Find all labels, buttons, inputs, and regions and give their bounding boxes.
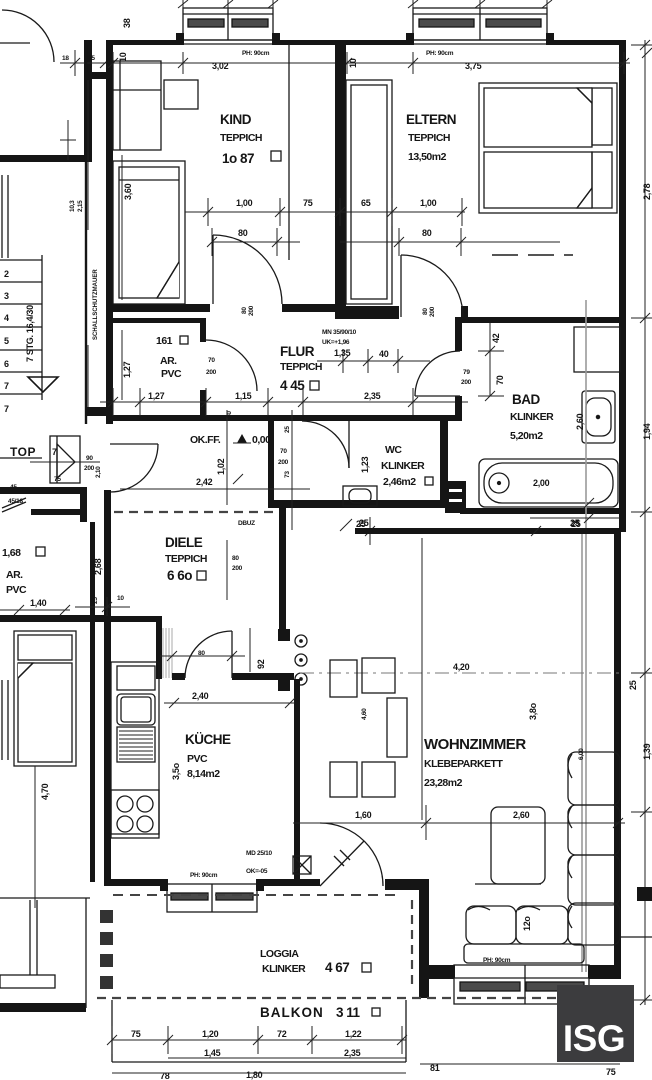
kitchen counter sink unit bbox=[111, 662, 159, 834]
svg-text:2,46m2: 2,46m2 bbox=[383, 476, 416, 488]
neighbor top-left door arc bbox=[2, 10, 54, 62]
svg-text:3,8o: 3,8o bbox=[528, 702, 538, 720]
neighbor bottom-left room bbox=[90, 622, 95, 882]
kitchen right wall bbox=[294, 679, 300, 886]
side table bbox=[475, 807, 545, 884]
svg-text:90: 90 bbox=[86, 455, 93, 462]
svg-text:UK=+1,96: UK=+1,96 bbox=[322, 339, 350, 346]
svg-text:75: 75 bbox=[303, 198, 313, 208]
TOP door dim line bbox=[30, 461, 100, 463]
KIND bed bbox=[113, 161, 185, 304]
ELTERN wardrobe bbox=[346, 80, 392, 304]
DIELE vertical dim x292 bbox=[291, 410, 293, 530]
KIND top window bbox=[183, 8, 273, 44]
svg-text:200: 200 bbox=[429, 306, 436, 317]
svg-text:4,70: 4,70 bbox=[40, 783, 50, 800]
neighbor top-left dim ticks bbox=[60, 50, 110, 76]
svg-text:1,40: 1,40 bbox=[30, 598, 47, 608]
svg-text:65: 65 bbox=[361, 198, 371, 208]
svg-text:80: 80 bbox=[241, 307, 248, 314]
svg-text:OK.FF.: OK.FF. bbox=[190, 434, 221, 446]
main dim chain y=402 bbox=[100, 388, 468, 416]
svg-text:1,02: 1,02 bbox=[216, 458, 226, 475]
kitchen window to loggia bbox=[167, 884, 257, 912]
svg-text:1,35: 1,35 bbox=[334, 348, 351, 358]
svg-text:10: 10 bbox=[117, 595, 124, 602]
svg-text:7 STG. 16,4/30: 7 STG. 16,4/30 bbox=[25, 305, 35, 362]
svg-text:2,40: 2,40 bbox=[192, 691, 209, 701]
top exterior wall segments bbox=[106, 40, 183, 45]
staircase steps left side bbox=[0, 255, 42, 458]
loggia left dashed boundary bbox=[100, 910, 113, 989]
svg-text:1,00: 1,00 bbox=[236, 198, 253, 208]
svg-text:PH: 90cm: PH: 90cm bbox=[242, 50, 270, 57]
svg-text:200: 200 bbox=[232, 565, 243, 572]
svg-text:25: 25 bbox=[628, 680, 638, 690]
BAD shower/washer box top right bbox=[574, 327, 620, 372]
svg-text:SCHALLSCHUTZMAUER: SCHALLSCHUTZMAUER bbox=[93, 269, 99, 340]
loggia top dashed beam bbox=[113, 894, 400, 896]
stair direction arrow bbox=[28, 377, 58, 392]
svg-text:2,60: 2,60 bbox=[575, 413, 585, 430]
KIND wardrobe top-left bbox=[113, 61, 161, 150]
svg-text:1,00: 1,00 bbox=[420, 198, 437, 208]
lower-left walls bbox=[0, 487, 86, 494]
right neighbor balcony wall piece bbox=[637, 887, 652, 901]
BAD bottom wall bbox=[460, 508, 626, 514]
svg-text:1,22: 1,22 bbox=[345, 1029, 362, 1039]
sofa L-shape bbox=[464, 752, 620, 963]
BAD top wall bbox=[460, 317, 626, 323]
svg-text:80: 80 bbox=[238, 228, 248, 238]
ELTERN right dashed sill bbox=[492, 254, 573, 256]
WC door leaf+arc bbox=[302, 421, 349, 468]
staircase step numbers bbox=[4, 269, 9, 414]
shaft between WC and BAD bbox=[445, 481, 466, 513]
svg-text:7: 7 bbox=[52, 447, 57, 457]
svg-text:25: 25 bbox=[284, 426, 291, 433]
corridor dim ticks bbox=[160, 651, 245, 661]
neighbor left window lower bbox=[1, 680, 3, 760]
svg-text:2,78: 2,78 bbox=[642, 183, 652, 200]
dim chain y=212 (1,00 | 75 | 65 | 1,00) bbox=[185, 198, 467, 226]
svg-text:LOGGIA: LOGGIA bbox=[260, 948, 299, 960]
svg-text:2,42: 2,42 bbox=[196, 477, 213, 487]
svg-text:80: 80 bbox=[232, 555, 239, 562]
kitchen wall hatch band bbox=[163, 628, 172, 678]
svg-text:4,20: 4,20 bbox=[453, 662, 470, 672]
svg-text:TEPPICH: TEPPICH bbox=[280, 361, 322, 373]
AR storage room walls bbox=[108, 318, 206, 323]
svg-text:4: 4 bbox=[4, 313, 9, 323]
svg-text:3,5o: 3,5o bbox=[171, 762, 181, 780]
svg-text:23,28m2: 23,28m2 bbox=[424, 777, 463, 789]
svg-text:1,60: 1,60 bbox=[355, 810, 372, 820]
svg-text:6: 6 bbox=[4, 359, 9, 369]
svg-text:80: 80 bbox=[422, 308, 429, 315]
svg-text:KÜCHE: KÜCHE bbox=[185, 732, 231, 747]
loggia door leaf+arc bbox=[320, 823, 383, 886]
svg-text:1,45: 1,45 bbox=[204, 1048, 221, 1058]
DIELE dim small bbox=[226, 540, 228, 600]
kitchen top wall bbox=[104, 616, 162, 622]
svg-text:2,35: 2,35 bbox=[364, 391, 381, 401]
KIND right boundary line bbox=[288, 44, 290, 260]
svg-text:30: 30 bbox=[226, 411, 233, 418]
svg-text:92: 92 bbox=[256, 659, 266, 669]
dashed beam DBUZ bbox=[114, 511, 280, 513]
KIND desk square bbox=[164, 80, 198, 109]
svg-text:AR.: AR. bbox=[6, 569, 23, 581]
svg-text:7: 7 bbox=[4, 404, 9, 414]
svg-text:200: 200 bbox=[206, 369, 217, 376]
KIND vertical dim 3,60 bbox=[121, 155, 123, 300]
svg-text:2,35: 2,35 bbox=[344, 1048, 361, 1058]
svg-text:4,60: 4,60 bbox=[361, 708, 368, 720]
svg-text:0,00: 0,00 bbox=[252, 434, 271, 446]
svg-text:1,27: 1,27 bbox=[122, 361, 132, 378]
FLUR mini dim 1,35 40 bbox=[317, 349, 430, 373]
svg-text:8,14m2: 8,14m2 bbox=[187, 768, 220, 780]
svg-text:PH: 90cm: PH: 90cm bbox=[483, 957, 511, 964]
svg-text:2,60: 2,60 bbox=[513, 810, 530, 820]
svg-text:4 67: 4 67 bbox=[325, 960, 349, 975]
BAD bathtub bbox=[479, 459, 618, 507]
svg-text:200: 200 bbox=[248, 305, 255, 316]
svg-text:4 45: 4 45 bbox=[280, 378, 305, 393]
dim chain y=242 (80 / 80) bbox=[207, 228, 560, 256]
door frame circles bbox=[295, 635, 307, 685]
svg-text:TEPPICH: TEPPICH bbox=[408, 132, 450, 144]
KIND door leaf+arc bbox=[213, 235, 282, 304]
kitchen left wall bbox=[104, 622, 111, 886]
svg-text:1,94: 1,94 bbox=[642, 423, 652, 440]
AR door arc bbox=[206, 340, 257, 391]
svg-text:75: 75 bbox=[606, 1067, 616, 1077]
ELTERN top window bbox=[413, 8, 547, 44]
svg-text:75: 75 bbox=[131, 1029, 141, 1039]
loggia/balkon dashed line bbox=[97, 997, 620, 999]
svg-text:OK=-05: OK=-05 bbox=[246, 868, 268, 875]
svg-text:38: 38 bbox=[122, 18, 132, 28]
neighbor top-left walls bbox=[0, 155, 90, 162]
dining chairs bbox=[330, 658, 407, 797]
svg-text:5: 5 bbox=[4, 336, 9, 346]
svg-text:25: 25 bbox=[88, 55, 95, 62]
TOP unit door symbol bbox=[50, 436, 80, 483]
svg-text:10,3: 10,3 bbox=[69, 200, 76, 212]
svg-text:1,20: 1,20 bbox=[202, 1029, 219, 1039]
svg-text:2,10: 2,10 bbox=[95, 466, 102, 478]
kitchen door arc bbox=[185, 631, 232, 678]
svg-text:TOP: TOP bbox=[10, 445, 36, 459]
BAD left wall upper stub bbox=[455, 317, 462, 351]
svg-text:13,50m2: 13,50m2 bbox=[408, 151, 447, 163]
svg-text:PH: 90cm: PH: 90cm bbox=[426, 50, 454, 57]
svg-text:2,15: 2,15 bbox=[77, 200, 84, 212]
WOHNZIMMER top wall bbox=[355, 528, 619, 534]
balcony dim line 1 bbox=[107, 1026, 407, 1054]
kitchen top dim labels bbox=[75, 597, 130, 617]
svg-text:BALKON: BALKON bbox=[260, 1005, 324, 1020]
svg-text:PVC: PVC bbox=[187, 753, 208, 765]
ISG logo bbox=[557, 985, 634, 1062]
ELTERN door leaf+arc bbox=[401, 255, 463, 317]
svg-text:TEPPICH: TEPPICH bbox=[220, 132, 262, 144]
svg-text:WC: WC bbox=[385, 444, 402, 456]
svg-text:1,15: 1,15 bbox=[235, 391, 252, 401]
svg-text:1,80: 1,80 bbox=[246, 1070, 263, 1080]
svg-text:DBUZ: DBUZ bbox=[238, 520, 255, 527]
svg-text:25: 25 bbox=[92, 597, 99, 604]
svg-text:MN 35/90/10: MN 35/90/10 bbox=[322, 329, 357, 336]
ELTERN double bed bbox=[479, 83, 617, 213]
window top tick marks bbox=[178, 0, 552, 10]
ELTERN bottom wall bbox=[346, 306, 399, 319]
svg-text:FLUR: FLUR bbox=[280, 344, 315, 359]
balcony outline bbox=[112, 1000, 406, 1062]
svg-text:ELTERN: ELTERN bbox=[406, 112, 456, 127]
svg-text:1,27: 1,27 bbox=[148, 391, 165, 401]
svg-text:80: 80 bbox=[422, 228, 432, 238]
svg-text:78: 78 bbox=[160, 1071, 170, 1080]
svg-text:7: 7 bbox=[4, 381, 9, 391]
party wall (SCHALLSCHUTZMAUER) bbox=[85, 45, 87, 424]
neighbor bed bbox=[14, 631, 76, 766]
svg-text:PVC: PVC bbox=[161, 368, 182, 380]
dashed section line 4,20 bbox=[300, 672, 620, 674]
svg-text:200: 200 bbox=[278, 459, 289, 466]
svg-text:1o 87: 1o 87 bbox=[222, 151, 254, 166]
svg-text:3,60: 3,60 bbox=[123, 183, 133, 200]
svg-text:79: 79 bbox=[463, 369, 470, 376]
svg-text:70: 70 bbox=[280, 448, 287, 455]
FLUR/DIELE divider wall bbox=[106, 415, 274, 421]
dim line y=823 bbox=[293, 805, 625, 840]
svg-text:PVC: PVC bbox=[6, 584, 27, 596]
svg-text:73: 73 bbox=[284, 471, 291, 478]
svg-text:TEPPICH: TEPPICH bbox=[165, 553, 207, 565]
svg-text:70: 70 bbox=[208, 357, 215, 364]
dishwasher hatch bbox=[119, 731, 153, 759]
svg-text:1,68: 1,68 bbox=[2, 547, 21, 559]
WC walls bbox=[268, 415, 356, 421]
KIND bottom wall bbox=[106, 304, 210, 312]
WOHNZIMMER door posts bbox=[278, 629, 290, 641]
kitchen bottom wall bbox=[104, 879, 167, 886]
shaft with X bbox=[293, 856, 311, 874]
svg-text:40: 40 bbox=[379, 349, 389, 359]
svg-text:PH: 90cm: PH: 90cm bbox=[190, 872, 218, 879]
svg-text:75: 75 bbox=[54, 476, 61, 483]
svg-text:KLINKER: KLINKER bbox=[262, 963, 306, 975]
svg-text:25: 25 bbox=[356, 519, 366, 529]
neighbor walls mid-left bbox=[90, 522, 95, 622]
corridor width dim 92 bbox=[249, 628, 251, 672]
svg-text:200: 200 bbox=[461, 379, 472, 386]
svg-text:12o: 12o bbox=[522, 916, 532, 931]
svg-text:42: 42 bbox=[491, 333, 501, 343]
BAD left wall lower stub bbox=[455, 396, 462, 421]
right exterior wall bbox=[619, 40, 626, 532]
svg-text:AR.: AR. bbox=[160, 355, 177, 367]
corridor/kitchen wall with door posts bbox=[172, 673, 185, 680]
top dim line ticks bbox=[108, 48, 652, 74]
svg-text:3 11: 3 11 bbox=[336, 1005, 361, 1020]
svg-text:ISG: ISG bbox=[563, 1018, 625, 1059]
loggia right wall bbox=[419, 886, 429, 998]
svg-text:18: 18 bbox=[62, 55, 69, 62]
svg-text:72: 72 bbox=[277, 1029, 287, 1039]
svg-text:WOHNZIMMER: WOHNZIMMER bbox=[424, 736, 526, 753]
window jamb blocks bbox=[176, 33, 184, 45]
BAD door leaf+arc bbox=[415, 351, 460, 396]
svg-text:3: 3 bbox=[4, 291, 9, 301]
KIND / ELTERN divider wall bbox=[335, 44, 346, 319]
svg-text:6,00: 6,00 bbox=[578, 748, 585, 760]
svg-text:1,23: 1,23 bbox=[360, 456, 370, 473]
svg-text:1,39: 1,39 bbox=[642, 743, 652, 760]
svg-text:KLEBEPARKETT: KLEBEPARKETT bbox=[424, 758, 503, 770]
DIELE vertical dim 1,02 bbox=[226, 410, 228, 505]
svg-text:KLINKER: KLINKER bbox=[381, 460, 425, 472]
svg-text:25: 25 bbox=[571, 519, 581, 529]
neighbor left window bbox=[1, 175, 3, 258]
svg-text:2: 2 bbox=[4, 269, 9, 279]
apartment left wall mid bbox=[104, 490, 111, 622]
svg-text:BAD: BAD bbox=[512, 392, 540, 407]
neighbor bottom window bbox=[0, 975, 55, 988]
WOHNZIMMER south wall w/ window bbox=[429, 965, 454, 979]
small dim cross left bbox=[60, 120, 76, 160]
gray section line vertical bbox=[585, 300, 587, 972]
DIELE/WOHNZIMMER wall bbox=[279, 508, 286, 632]
svg-text:DIELE: DIELE bbox=[165, 535, 203, 550]
BAD washbasin bbox=[582, 391, 615, 443]
svg-text:5,20m2: 5,20m2 bbox=[510, 430, 543, 442]
svg-text:MD 25/10: MD 25/10 bbox=[246, 850, 272, 857]
right edge dimension chain bbox=[631, 40, 652, 1005]
svg-text:200: 200 bbox=[84, 465, 95, 472]
svg-text:KLINKER: KLINKER bbox=[510, 411, 554, 423]
kitchen stove bbox=[111, 790, 159, 838]
svg-text:KIND: KIND bbox=[220, 112, 252, 127]
apartment entry door arc bbox=[110, 444, 158, 492]
WC toilet bbox=[343, 486, 377, 506]
svg-text:3: 3 bbox=[108, 391, 113, 401]
svg-text:6 6o: 6 6o bbox=[167, 568, 192, 583]
svg-text:2,00: 2,00 bbox=[533, 478, 550, 488]
svg-text:70: 70 bbox=[495, 375, 505, 385]
svg-text:161: 161 bbox=[156, 335, 173, 347]
apartment left wall upper bbox=[106, 40, 113, 424]
